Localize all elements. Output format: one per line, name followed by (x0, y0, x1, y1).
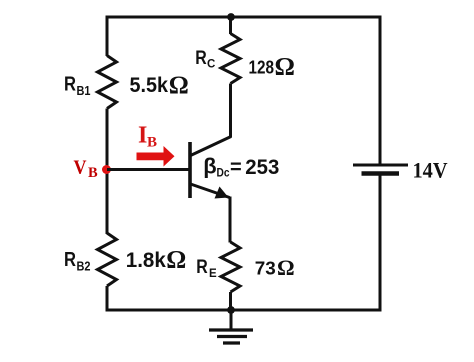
svg-text:Ω: Ω (275, 52, 295, 81)
wire: left branch upper segment (top rail to RB1) (106, 16, 109, 57)
resistor RB2 zigzag (98, 233, 117, 286)
node VB red dot (102, 165, 111, 174)
svg-text:E: E (209, 268, 217, 280)
svg-text:253: 253 (245, 156, 279, 179)
svg-text:R: R (64, 249, 76, 271)
wire: right branch lower (battery - plate to bottom rail) (379, 174, 382, 312)
wire: RE bottom lead to bottom rail (229, 292, 232, 310)
svg-text:R: R (195, 48, 207, 69)
battery V1 long plate (+) (353, 164, 408, 167)
battery V1 short plate (-) (362, 171, 400, 176)
svg-text:5.5k: 5.5k (130, 74, 169, 97)
resistor RB1 zigzag (98, 56, 117, 109)
wire: base wire from VB node to transistor base bar (107, 168, 189, 171)
transistor Q1 emitter diagonal (191, 184, 230, 198)
svg-text:14V: 14V (413, 158, 448, 183)
svg-text:B2: B2 (77, 260, 91, 274)
svg-text:Ω: Ω (277, 255, 295, 280)
svg-text:β: β (203, 154, 216, 179)
svg-text:=: = (230, 157, 242, 179)
svg-text:B: B (88, 165, 98, 181)
transistor Q1 collector diagonal (191, 137, 232, 156)
svg-text:C: C (207, 58, 215, 70)
wire: bottom rail (106, 309, 382, 312)
svg-text:R: R (64, 74, 76, 96)
node: top junction dot at collector branch (227, 13, 235, 21)
wire: collector lead vertical (RC bottom to transistor) (229, 84, 232, 138)
wire: right branch upper (top rail to battery + plate) (379, 16, 382, 166)
transistor Q1 base bar (188, 142, 192, 198)
wire: left branch middle segment (RB1 to RB2 through VB node) (106, 109, 109, 235)
wire: left branch lower segment (RB2 to bottom rail) (106, 286, 109, 312)
wire: RC top lead (dot to zigzag) (229, 17, 232, 34)
svg-text:73: 73 (255, 258, 276, 279)
svg-text:R: R (196, 257, 208, 278)
svg-text:I: I (138, 123, 147, 149)
current arrow IB (red) (137, 146, 175, 167)
svg-text:V: V (74, 156, 87, 178)
svg-text:128: 128 (249, 56, 275, 77)
resistor RC zigzag (221, 34, 240, 84)
transistor Q1 emitter arrowhead (215, 187, 229, 199)
wire: emitter vertical (transistor to RE) (229, 197, 232, 243)
resistor RE zigzag (221, 242, 240, 292)
svg-text:1.8k: 1.8k (126, 249, 166, 272)
svg-text:Ω: Ω (166, 247, 186, 274)
ground symbol (230, 310, 233, 329)
svg-text:B1: B1 (77, 84, 91, 98)
svg-text:Ω: Ω (169, 72, 189, 99)
wire: top rail from left branch to right branch (106, 16, 382, 19)
svg-text:Dc: Dc (217, 168, 231, 180)
node: bottom junction dot at emitter/ground (227, 306, 235, 314)
svg-text:B: B (147, 134, 157, 150)
